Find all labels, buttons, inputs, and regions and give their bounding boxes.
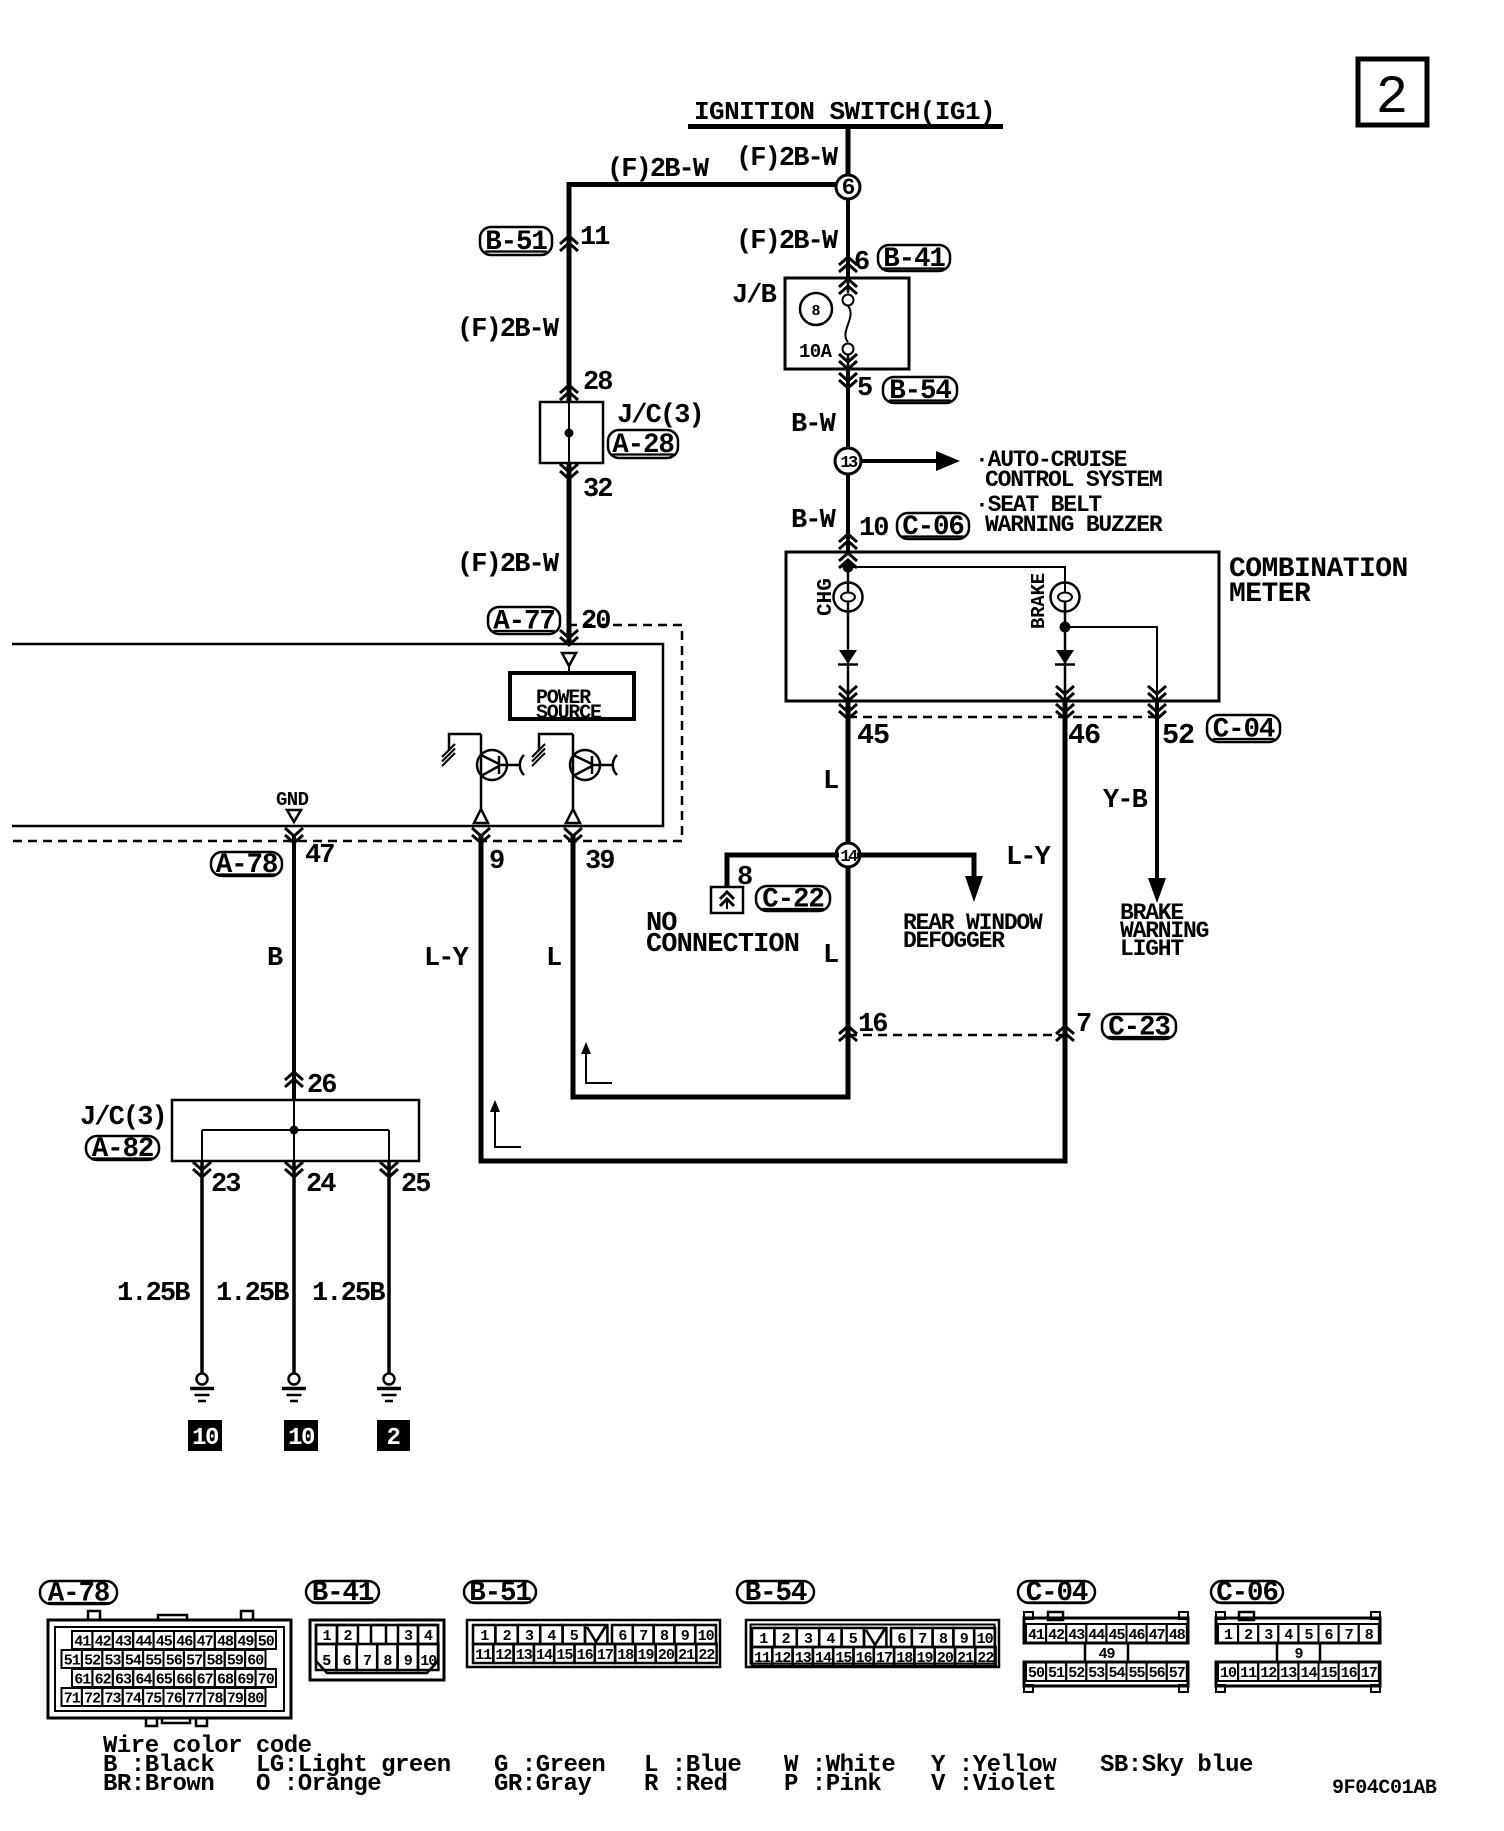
node 6 (836, 175, 860, 201)
svg-text:73: 73 (104, 1691, 121, 1708)
svg-text:46: 46 (1068, 719, 1100, 752)
svg-text:12: 12 (774, 1650, 791, 1667)
svg-text:63: 63 (115, 1672, 132, 1689)
svg-text:J/B: J/B (732, 281, 777, 311)
svg-text:19: 19 (637, 1647, 654, 1664)
svg-text:2: 2 (782, 1631, 791, 1648)
pin 20 (560, 607, 610, 645)
svg-text:6: 6 (1324, 1627, 1333, 1644)
svg-text:10A: 10A (799, 341, 833, 363)
svg-text:L-Y: L-Y (424, 944, 470, 974)
meter internal wire to brake lamp (848, 567, 1065, 592)
pin 26 (285, 1071, 336, 1101)
svg-text:26: 26 (307, 1071, 336, 1101)
svg-text:3: 3 (525, 1628, 534, 1645)
svg-text:3: 3 (804, 1631, 813, 1648)
pin 47 (285, 828, 334, 871)
svg-text:BRAKE: BRAKE (1028, 573, 1050, 629)
svg-text:2: 2 (503, 1628, 512, 1645)
joint connector J/C(3) A-82 (80, 1100, 419, 1161)
svg-text:51: 51 (1048, 1665, 1065, 1682)
svg-text:10: 10 (977, 1631, 994, 1648)
svg-text:77: 77 (186, 1691, 202, 1708)
svg-text:(F)2B-W: (F)2B-W (457, 550, 560, 580)
connector pinout C-04 (1024, 1612, 1188, 1692)
power source box (510, 673, 634, 725)
svg-text:2: 2 (387, 1425, 400, 1452)
svg-text:DEFOGGER: DEFOGGER (903, 928, 1005, 954)
meter pin 45 (839, 686, 857, 719)
svg-text:B-54: B-54 (889, 376, 951, 407)
svg-text:11: 11 (475, 1647, 492, 1664)
brake lamp node (1060, 602, 1071, 701)
svg-text:A-78: A-78 (48, 1579, 110, 1610)
svg-text:16: 16 (577, 1647, 594, 1664)
svg-text:14: 14 (815, 1650, 832, 1667)
svg-text:7: 7 (639, 1628, 647, 1645)
svg-text:13: 13 (516, 1647, 533, 1664)
svg-text:B-51: B-51 (485, 227, 547, 258)
svg-text:74: 74 (125, 1691, 142, 1708)
svg-text:69: 69 (237, 1672, 254, 1689)
svg-text:49: 49 (237, 1634, 254, 1651)
svg-text:47: 47 (305, 841, 334, 871)
svg-text:50: 50 (1028, 1665, 1045, 1682)
svg-text:45: 45 (156, 1634, 173, 1651)
svg-text:16: 16 (1341, 1665, 1358, 1682)
label brake warning light (1120, 900, 1209, 962)
svg-text:61: 61 (74, 1672, 91, 1689)
svg-text:68: 68 (217, 1672, 234, 1689)
svg-text:O :Orange: O :Orange (256, 1771, 381, 1798)
svg-text:44: 44 (1088, 1627, 1105, 1644)
svg-text:C-06: C-06 (1216, 1578, 1278, 1609)
meter pin 52 (1148, 686, 1166, 719)
svg-text:53: 53 (104, 1653, 121, 1670)
svg-text:55: 55 (1128, 1665, 1145, 1682)
ground wire 25 (387, 1161, 391, 1373)
svg-text:5: 5 (1304, 1627, 1313, 1644)
svg-text:9: 9 (404, 1653, 413, 1670)
node 14 (836, 843, 860, 867)
svg-text:11: 11 (1240, 1665, 1257, 1682)
svg-text:13: 13 (840, 454, 858, 473)
svg-text:41: 41 (74, 1634, 91, 1651)
node 13 (835, 448, 861, 474)
indicator lamp CHG (815, 578, 863, 616)
svg-text:CONNECTION: CONNECTION (646, 930, 799, 960)
svg-text:L: L (823, 941, 838, 971)
connector pinout A-78 (48, 1611, 291, 1726)
svg-text:L: L (546, 944, 561, 974)
drawing number (1332, 1777, 1437, 1800)
svg-text:18: 18 (896, 1650, 913, 1667)
svg-text:22: 22 (698, 1647, 715, 1664)
connector pinout label C-06 (1211, 1578, 1283, 1609)
label no connection (646, 909, 799, 960)
fuse 10A (799, 279, 857, 369)
connector ref C-23 (1102, 1013, 1176, 1044)
wire: node 6 to B-51 branch (567, 182, 849, 402)
svg-text:20: 20 (581, 607, 610, 637)
svg-text:9: 9 (960, 1631, 969, 1648)
svg-text:28: 28 (583, 368, 612, 398)
svg-text:7: 7 (363, 1653, 371, 1670)
wire label (F)2B-W left top (607, 155, 710, 185)
svg-text:47: 47 (1149, 1627, 1165, 1644)
wire: ignition switch to node 6 (846, 129, 851, 176)
junction block J/B (732, 278, 909, 369)
svg-text:IGNITION SWITCH(IG1): IGNITION SWITCH(IG1) (694, 97, 995, 127)
meter entry pin (839, 553, 857, 568)
svg-text:42: 42 (1048, 1627, 1065, 1644)
svg-text:8: 8 (811, 303, 820, 320)
svg-text:2: 2 (1376, 68, 1408, 129)
connector pinout label B-51 (464, 1578, 536, 1609)
svg-text:2: 2 (343, 1628, 352, 1645)
svg-text:1: 1 (322, 1628, 331, 1645)
svg-text:15: 15 (556, 1647, 573, 1664)
svg-text:51: 51 (64, 1653, 81, 1670)
svg-text:19: 19 (916, 1650, 933, 1667)
meter wire to pin 52 (1065, 627, 1157, 701)
svg-text:GR:Gray: GR:Gray (494, 1771, 591, 1798)
connector ref B-51 (480, 227, 552, 258)
label combination meter (1229, 554, 1408, 610)
unit box solid (12, 644, 663, 826)
svg-text:14: 14 (840, 848, 858, 867)
pin 32 (560, 464, 612, 505)
branch to C-22 no connection (727, 855, 839, 886)
wire label L-Y right (1006, 843, 1052, 873)
transistor Q2 (532, 734, 617, 823)
connector pinout B-51 (467, 1620, 720, 1667)
svg-text:10: 10 (859, 514, 888, 544)
svg-text:70: 70 (258, 1672, 275, 1689)
svg-text:66: 66 (176, 1672, 193, 1689)
svg-text:8: 8 (939, 1631, 948, 1648)
indicator lamp BRAKE (1028, 573, 1080, 629)
svg-text:8: 8 (737, 863, 752, 893)
svg-text:10: 10 (288, 1425, 315, 1452)
svg-text:67: 67 (197, 1672, 213, 1689)
svg-text:CONTROL SYSTEM: CONTROL SYSTEM (985, 467, 1162, 493)
svg-text:55: 55 (145, 1653, 162, 1670)
svg-text:75: 75 (145, 1691, 162, 1708)
wire: A-28 to A-77 (567, 463, 572, 645)
wire: node 6 to J/B (846, 199, 850, 278)
svg-text:3: 3 (404, 1628, 413, 1645)
svg-text:SB:Sky blue: SB:Sky blue (1100, 1752, 1253, 1779)
svg-text:11: 11 (754, 1650, 771, 1667)
svg-text:41: 41 (1028, 1627, 1045, 1644)
svg-text:52: 52 (1068, 1665, 1085, 1682)
page number box 2 (1358, 59, 1427, 129)
svg-text:(F)2B-W: (F)2B-W (607, 155, 710, 185)
svg-text:C-04: C-04 (1213, 715, 1275, 746)
svg-text:18: 18 (617, 1647, 634, 1664)
svg-text:5: 5 (570, 1628, 579, 1645)
svg-text:(F)2B-W: (F)2B-W (457, 315, 560, 345)
connector C-04 boundary (848, 716, 1157, 719)
svg-text:9: 9 (681, 1628, 690, 1645)
svg-text:6: 6 (343, 1653, 352, 1670)
svg-text:44: 44 (135, 1634, 152, 1651)
connector ref A-82 (86, 1134, 159, 1165)
svg-text:6: 6 (842, 175, 855, 201)
connector pinout B-41 (310, 1620, 444, 1680)
svg-text:10: 10 (1220, 1665, 1237, 1682)
joint connector J/C(3) A-28 (540, 401, 703, 463)
svg-text:4: 4 (826, 1631, 835, 1648)
meter pin 46 (1056, 686, 1074, 719)
svg-text:B-41: B-41 (883, 244, 945, 275)
svg-text:12: 12 (495, 1647, 512, 1664)
svg-text:6: 6 (854, 248, 869, 278)
svg-text:9: 9 (1294, 1646, 1303, 1663)
svg-text:49: 49 (1098, 1646, 1115, 1663)
connector ref A-78 (211, 850, 282, 881)
wire L from pin 45 (823, 701, 848, 844)
svg-text:56: 56 (166, 1653, 183, 1670)
svg-text:43: 43 (1068, 1627, 1085, 1644)
svg-text:11: 11 (580, 223, 610, 253)
svg-text:1.25B: 1.25B (117, 1279, 190, 1309)
svg-text:79: 79 (227, 1691, 244, 1708)
svg-text:56: 56 (1149, 1665, 1166, 1682)
svg-text:5: 5 (322, 1653, 331, 1670)
pin 11 connector crossing (560, 223, 610, 253)
svg-text:48: 48 (217, 1634, 234, 1651)
svg-text:8: 8 (660, 1628, 669, 1645)
svg-text:21: 21 (957, 1650, 974, 1667)
svg-text:5: 5 (849, 1631, 858, 1648)
svg-text:71: 71 (64, 1691, 81, 1708)
svg-text:2: 2 (1244, 1627, 1253, 1644)
svg-text:13: 13 (1280, 1665, 1297, 1682)
connector ref C-22 (756, 885, 830, 916)
pin 24 (285, 1162, 336, 1200)
wire B-W upper (791, 369, 848, 448)
wire label (F)2B-W right top (736, 144, 839, 174)
svg-text:24: 24 (306, 1170, 336, 1200)
pin 39 (564, 828, 614, 877)
svg-text:9: 9 (489, 847, 504, 877)
svg-text:5: 5 (857, 374, 872, 404)
svg-text:WARNING BUZZER: WARNING BUZZER (985, 512, 1163, 538)
svg-text:43: 43 (115, 1634, 132, 1651)
ground wire 24 (292, 1161, 296, 1373)
svg-text:BR:Brown: BR:Brown (103, 1771, 214, 1798)
svg-text:46: 46 (1128, 1627, 1145, 1644)
svg-text:42: 42 (95, 1634, 112, 1651)
direction arrow A1 (581, 1042, 612, 1083)
svg-text:GND: GND (276, 789, 309, 811)
svg-text:A-28: A-28 (612, 430, 674, 461)
ground ref box 10 a (188, 1420, 222, 1452)
svg-text:C-22: C-22 (762, 885, 824, 916)
svg-text:60: 60 (247, 1653, 264, 1670)
svg-text:50: 50 (258, 1634, 275, 1651)
svg-text:1: 1 (480, 1628, 489, 1645)
pin 9 (472, 828, 504, 877)
branch to rear window defogger (857, 855, 983, 902)
svg-text:B: B (267, 944, 283, 974)
svg-text:B-W: B-W (791, 410, 837, 440)
ground ref box 2 (377, 1420, 410, 1452)
svg-text:48: 48 (1169, 1627, 1186, 1644)
power source entry triangle (562, 653, 576, 673)
svg-text:59: 59 (227, 1653, 244, 1670)
svg-text:15: 15 (835, 1650, 852, 1667)
connector pinout label C-04 (1018, 1578, 1095, 1609)
svg-text:6: 6 (897, 1631, 906, 1648)
svg-text:15: 15 (1320, 1665, 1337, 1682)
legend wire color code title (103, 1733, 312, 1760)
diode CHG (838, 602, 858, 701)
wire B-W lower (791, 474, 848, 552)
svg-text:3: 3 (1264, 1627, 1273, 1644)
svg-text:CHG: CHG (815, 578, 838, 616)
pin 7 (1056, 1010, 1091, 1041)
wire label 1.25B x3 (117, 1279, 385, 1309)
svg-text:80: 80 (247, 1691, 264, 1708)
svg-text:SOURCE: SOURCE (536, 702, 602, 725)
svg-text:17: 17 (1361, 1665, 1377, 1682)
combination meter box (786, 552, 1219, 701)
diode BRAKE (1055, 650, 1075, 665)
svg-text:23: 23 (211, 1170, 240, 1200)
svg-text:17: 17 (876, 1650, 892, 1667)
svg-text:20: 20 (658, 1647, 675, 1664)
wire label L middle (546, 944, 561, 974)
svg-text:20: 20 (937, 1650, 954, 1667)
pin 5 and connector ref B-54 (839, 373, 957, 407)
label rear window defogger (903, 910, 1043, 954)
svg-text:7: 7 (1345, 1627, 1353, 1644)
svg-text:C-23: C-23 (1108, 1013, 1170, 1044)
ground symbol 25 (377, 1374, 401, 1402)
svg-text:C-04: C-04 (1026, 1578, 1088, 1609)
wire L-Y from pin 46 (424, 701, 1065, 1161)
svg-text:53: 53 (1088, 1665, 1105, 1682)
pin 10 and connector ref C-06 (839, 512, 969, 549)
svg-text:1: 1 (1224, 1627, 1233, 1644)
svg-text:J/C(3): J/C(3) (617, 401, 703, 431)
pin 6 and connector ref B-41 (839, 244, 950, 278)
svg-text:14: 14 (1300, 1665, 1317, 1682)
svg-text:72: 72 (84, 1691, 101, 1708)
connector ref A-28 (608, 430, 678, 461)
svg-text:1: 1 (759, 1631, 768, 1648)
svg-text:L-Y: L-Y (1006, 843, 1052, 873)
ground wire 23 (200, 1161, 204, 1373)
svg-text:7: 7 (1076, 1010, 1091, 1040)
ignition switch bus bar (688, 124, 1003, 129)
connector ref A-77 (488, 607, 560, 638)
svg-text:52: 52 (84, 1653, 101, 1670)
GND label (276, 789, 309, 822)
wire B (267, 835, 294, 1100)
connector pinout C-06 (1216, 1612, 1380, 1692)
wire Y-B from pin 52 (1103, 701, 1166, 903)
svg-text:52: 52 (1162, 719, 1194, 752)
ground symbol 23 (190, 1374, 214, 1402)
svg-text:A-78: A-78 (216, 850, 278, 881)
svg-text:(F)2B-W: (F)2B-W (736, 144, 839, 174)
svg-text:45: 45 (1108, 1627, 1125, 1644)
wire L below node 14 (573, 836, 848, 1097)
svg-text:6: 6 (618, 1628, 627, 1645)
svg-text:32: 32 (583, 475, 612, 505)
svg-text:1.25B: 1.25B (312, 1279, 385, 1309)
svg-text:L: L (823, 767, 838, 797)
svg-text:57: 57 (1169, 1665, 1185, 1682)
transistor Q1 (442, 734, 524, 823)
ground symbol 24 (282, 1374, 306, 1402)
svg-text:4: 4 (1284, 1627, 1293, 1644)
svg-text:P :Pink: P :Pink (784, 1771, 881, 1798)
connector pinout B-54 (746, 1620, 999, 1667)
svg-text:13: 13 (795, 1650, 812, 1667)
arrow to auto-cruise (861, 451, 960, 471)
svg-text:58: 58 (206, 1653, 223, 1670)
pin 8 (737, 863, 752, 893)
svg-text:46: 46 (176, 1634, 193, 1651)
svg-text:78: 78 (206, 1691, 223, 1708)
svg-text:7: 7 (918, 1631, 926, 1648)
svg-text:8: 8 (1365, 1627, 1374, 1644)
fuse circuit 8 (800, 293, 832, 325)
svg-text:10: 10 (420, 1653, 437, 1670)
svg-text:4: 4 (424, 1628, 433, 1645)
svg-text:B-41: B-41 (312, 1578, 374, 1609)
svg-text:Y-B: Y-B (1103, 786, 1148, 816)
svg-text:A-77: A-77 (493, 607, 555, 638)
svg-text:10: 10 (698, 1628, 715, 1645)
svg-text:1.25B: 1.25B (216, 1279, 289, 1309)
svg-text:(F)2B-W: (F)2B-W (736, 227, 839, 257)
label IGNITION SWITCH(IG1) (694, 97, 995, 127)
svg-text:B-W: B-W (791, 506, 837, 536)
connector pinout label B-54 (737, 1578, 814, 1609)
connector pinout label B-41 (306, 1578, 379, 1609)
svg-text:76: 76 (166, 1691, 183, 1708)
connector C-23 boundary (848, 1034, 1065, 1037)
svg-text:12: 12 (1260, 1665, 1277, 1682)
svg-text:METER: METER (1229, 579, 1311, 610)
svg-text:4: 4 (547, 1628, 556, 1645)
svg-text:64: 64 (135, 1672, 152, 1689)
wire label (F)2B-W lower (457, 550, 560, 580)
wire label (F)2B-W left branch (457, 315, 560, 345)
svg-text:65: 65 (156, 1672, 173, 1689)
svg-text:A-82: A-82 (92, 1134, 154, 1165)
svg-text:10: 10 (192, 1425, 219, 1452)
svg-text:14: 14 (536, 1647, 553, 1664)
legend row 1 (103, 1752, 1253, 1779)
wire label (F)2B-W right branch (736, 227, 839, 257)
label auto-cruise control system (975, 447, 1162, 493)
meter internal node (843, 560, 854, 592)
connector pinout label A-78 (40, 1579, 117, 1610)
svg-text:V :Violet: V :Violet (931, 1771, 1056, 1798)
svg-text:47: 47 (197, 1634, 213, 1651)
no connection symbol (711, 887, 743, 913)
direction arrow A2 (490, 1100, 521, 1147)
svg-text:16: 16 (856, 1650, 873, 1667)
svg-text:21: 21 (678, 1647, 695, 1664)
